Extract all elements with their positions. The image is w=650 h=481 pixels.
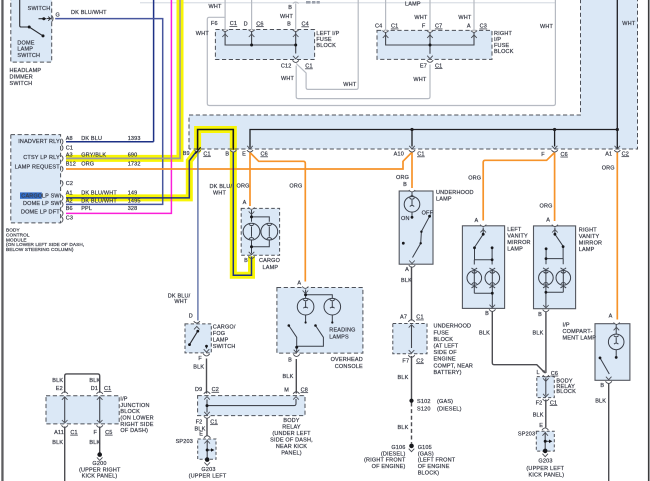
- svg-text:SIDE OF DASH,: SIDE OF DASH,: [270, 437, 313, 443]
- svg-text:C6: C6: [551, 371, 558, 377]
- label G105 (GAS) (LEFT FRONT OF ENGINE BLOCK): [418, 445, 456, 476]
- BCM left pin function labels: [15, 139, 61, 215]
- svg-text:C2: C2: [66, 181, 73, 187]
- svg-text:DOME: DOME: [17, 40, 34, 46]
- svg-text:C1: C1: [210, 419, 217, 425]
- label RIGHT VANITY MIRROR LAMP: [579, 227, 602, 253]
- svg-text:F: F: [422, 24, 426, 30]
- label G203 right (UPPER LEFT KICK PANEL): [526, 459, 564, 479]
- wire black loop inside connector strip B9 to B: [198, 130, 234, 150]
- wire DK BLU/WHT 149 highlight (yellow): [66, 130, 252, 276]
- body relay pin D9/M arcs: [204, 392, 300, 394]
- svg-text:WHT: WHT: [213, 190, 227, 196]
- overhead console box: [277, 288, 363, 354]
- svg-text:WHT: WHT: [413, 77, 427, 83]
- ground G106/G105: [409, 444, 415, 452]
- svg-text:(AT LEFT: (AT LEFT: [434, 344, 459, 350]
- right vanity pin B label and BLK: [533, 312, 544, 337]
- labels OFF ON: [401, 210, 434, 222]
- svg-text:CONSOLE: CONSOLE: [335, 364, 363, 370]
- svg-text:BLK: BLK: [52, 440, 63, 446]
- svg-text:G106: G106: [391, 445, 405, 451]
- svg-text:D: D: [244, 21, 248, 27]
- ground G200: [97, 452, 103, 460]
- svg-text:WHT: WHT: [414, 15, 428, 21]
- svg-text:BLK: BLK: [401, 278, 412, 284]
- svg-text:OF ENGINE): OF ENGINE): [372, 464, 406, 470]
- svg-text:A: A: [546, 218, 550, 224]
- svg-text:CARGO/: CARGO/: [213, 325, 236, 331]
- svg-text:C6: C6: [256, 21, 263, 27]
- svg-text:149: 149: [128, 191, 138, 197]
- underhood lamp pin A exit: [409, 261, 415, 268]
- svg-text:ORG: ORG: [289, 184, 302, 190]
- svg-text:C3: C3: [480, 24, 487, 30]
- svg-text:BLK: BLK: [479, 331, 490, 337]
- label UNDERHOOD LAMP: [436, 190, 474, 203]
- wire WHT from C12 routed up between fuse blocks: [296, 0, 358, 89]
- overhead console pin A entry: [302, 287, 308, 294]
- label CARGO LP SW with selection highlight: [20, 192, 60, 199]
- wire ORG pin F branch to left vanity lamp A: [483, 153, 554, 221]
- svg-text:C1: C1: [435, 63, 442, 69]
- svg-text:LP SW: LP SW: [42, 194, 61, 200]
- wire BLK left vanity B to body relay block L: [492, 312, 546, 374]
- connector strip pin label B: [225, 151, 229, 157]
- underhood fuse block internals: [408, 320, 414, 358]
- connector E/C6 pin: [247, 146, 253, 152]
- svg-text:(UPPER LEFT: (UPPER LEFT: [526, 466, 564, 472]
- svg-text:BLK: BLK: [283, 374, 294, 380]
- svg-text:CARGO: CARGO: [21, 194, 43, 200]
- svg-text:D9: D9: [195, 387, 202, 393]
- svg-text:B: B: [287, 22, 291, 28]
- svg-text:B: B: [403, 182, 407, 188]
- label DOME LAMP SWITCH: [17, 40, 40, 59]
- svg-text:C6: C6: [561, 152, 568, 158]
- svg-text:F: F: [93, 430, 97, 436]
- svg-text:D1: D1: [91, 386, 98, 392]
- splice SP203 left internals: [204, 436, 214, 466]
- label CARGO/FOG LAMP SWITCH: [213, 325, 236, 351]
- right vanity pin B exit: [543, 305, 549, 312]
- cargo lamp pin B exit: [248, 252, 254, 259]
- wire DK BLU/WHT 1495 connector B9 to fog lamp switch D: [197, 152, 199, 321]
- svg-text:DK BLU: DK BLU: [81, 136, 102, 142]
- svg-text:COMPART-: COMPART-: [563, 329, 593, 335]
- svg-text:E7: E7: [420, 63, 427, 69]
- svg-text:(GAS): (GAS): [418, 451, 434, 457]
- svg-text:BLOCK: BLOCK: [556, 389, 576, 395]
- svg-text:DK BLU/WHT: DK BLU/WHT: [71, 10, 107, 16]
- I/P compartment lamp pin A entry: [614, 323, 620, 331]
- I/P junction block internals: [62, 392, 103, 428]
- svg-text:S120: S120: [417, 407, 431, 413]
- body relay block box (right): [537, 377, 555, 398]
- svg-text:(DIESEL): (DIESEL): [381, 451, 406, 457]
- svg-text:B: B: [288, 5, 292, 11]
- connector B9/C1 pin: [195, 147, 201, 153]
- svg-text:ON: ON: [401, 216, 410, 222]
- body relay box (center): [198, 396, 305, 416]
- connector A1/C2 pin: [614, 146, 620, 152]
- I/P harness connector strip (blue dashed region) fill: [189, 0, 638, 149]
- svg-text:C1: C1: [230, 21, 237, 27]
- svg-text:C8: C8: [301, 387, 308, 393]
- cargo lamp internals (two bulbs): [243, 210, 278, 254]
- svg-text:WHT: WHT: [281, 76, 295, 82]
- ORG wire labels: [237, 166, 615, 210]
- svg-text:UNDERHOOD: UNDERHOOD: [436, 190, 474, 196]
- svg-text:L: L: [536, 370, 539, 376]
- cut-off top module bottom edge: [140, 2, 555, 4]
- I/P harness connector strip dashed border: [189, 0, 638, 149]
- console pin B label and BLK: [283, 357, 294, 379]
- svg-text:ORG: ORG: [396, 175, 409, 181]
- svg-text:1495: 1495: [128, 199, 141, 205]
- svg-text:OFF: OFF: [422, 210, 434, 216]
- left vanity pin A entry: [480, 225, 486, 233]
- label G106 (DIESEL) (RIGHT FRONT OF ENGINE): [364, 445, 406, 470]
- svg-text:F7: F7: [402, 358, 409, 364]
- wire WHT from E7 routed left to C12: [296, 65, 430, 99]
- svg-text:DOME LP SW: DOME LP SW: [23, 201, 60, 207]
- connector strip pin labels A1/C2: [605, 151, 629, 157]
- svg-text:WHT: WHT: [622, 21, 636, 27]
- label C12/C1: [281, 64, 313, 70]
- cut text fragment top center: [306, 1, 320, 4]
- wire BLK body relay F2 to splice SP203: [206, 418, 208, 436]
- labels F7/C2 and BLK: [398, 358, 424, 381]
- label READING LAMPS: [329, 328, 355, 341]
- left I/P fuse block box: [215, 30, 314, 60]
- label I/P COMPARTMENT LAMP: [563, 323, 597, 342]
- overhead console reading lamps internals: [289, 290, 341, 353]
- connector strip pin labels F/C6: [541, 152, 568, 158]
- svg-text:BLK: BLK: [52, 378, 63, 384]
- svg-text:1393: 1393: [128, 136, 141, 142]
- svg-text:C1: C1: [417, 152, 424, 158]
- right fuse block pin labels: [375, 24, 487, 30]
- svg-text:F2: F2: [536, 400, 543, 406]
- svg-text:RELAY: RELAY: [282, 424, 301, 430]
- svg-text:E2: E2: [56, 386, 63, 392]
- svg-text:E: E: [199, 432, 203, 438]
- label G203 left: [189, 467, 227, 479]
- wire WHT right fuse C4/C1 riser: [385, 0, 387, 30]
- svg-text:D: D: [189, 314, 193, 320]
- svg-text:BLK: BLK: [533, 331, 544, 337]
- svg-text:(ON LOWER: (ON LOWER: [120, 416, 153, 422]
- labels D9/C2: [195, 387, 219, 393]
- svg-text:HEADLAMP: HEADLAMP: [10, 68, 42, 74]
- body control module box: [11, 135, 61, 223]
- wire GRY/BLK 690 core: [66, 0, 180, 158]
- svg-text:ORG: ORG: [237, 183, 250, 189]
- svg-text:A11: A11: [54, 430, 64, 436]
- left vanity lamp internals: [467, 228, 500, 308]
- svg-text:LEFT: LEFT: [507, 227, 522, 233]
- right I/P fuse block box: [377, 30, 492, 59]
- svg-text:LAMP: LAMP: [579, 247, 595, 253]
- label SWITCH (dimmer top, cut): [28, 6, 51, 12]
- svg-text:B: B: [538, 312, 542, 318]
- svg-text:DIMMER: DIMMER: [10, 75, 33, 81]
- label UNDERHOOD FUSE BLOCK (AT LEFT SIDE OF ENGINE COMPT, NEAR BATTERY): [434, 324, 474, 376]
- overhead console pin B exit: [293, 350, 299, 357]
- svg-text:C4: C4: [375, 24, 382, 30]
- svg-text:DK BLU/: DK BLU/: [210, 184, 233, 190]
- wire BLK overhead console B to body relay M: [295, 359, 297, 394]
- svg-text:S102: S102: [417, 399, 431, 405]
- svg-text:BLOCK: BLOCK: [120, 409, 140, 415]
- wire ORG 1732 from BCM B12 to pin A10: [66, 152, 412, 169]
- underhood fuse block box: [393, 324, 427, 354]
- connector F/C6 pin: [552, 146, 558, 152]
- svg-text:B9: B9: [183, 151, 190, 157]
- svg-text:ORG: ORG: [81, 162, 94, 168]
- label BODY RELAY (UNDER LEFT SIDE OF DASH, NEAR KICK PANEL): [270, 418, 313, 457]
- svg-text:BLK: BLK: [398, 425, 409, 431]
- wire BLK underhood lamp A to underhood fuse block A7: [411, 267, 413, 321]
- body relay (center) internals: [204, 397, 299, 419]
- labels F2/C1 BLK E (left ground chain): [195, 419, 218, 437]
- svg-text:BELOW STEERING COLUMN): BELOW STEERING COLUMN): [6, 247, 74, 252]
- svg-text:SP203: SP203: [518, 432, 535, 438]
- svg-text:LAMP: LAMP: [263, 265, 279, 271]
- svg-text:LAMP: LAMP: [436, 197, 452, 203]
- svg-text:F6: F6: [211, 21, 218, 27]
- wire PPL 328 from BCM B6 to top: [66, 0, 171, 213]
- label RIGHT I/P FUSE BLOCK: [494, 31, 514, 55]
- svg-text:BLK: BLK: [193, 365, 204, 371]
- wire ORG pin A10 to underhood lamp B: [411, 153, 413, 189]
- svg-text:LAMP: LAMP: [213, 338, 229, 344]
- wire BLK junction block F to ground G200: [99, 427, 101, 453]
- wire WHT fuse B/C4 riser: [293, 2, 299, 30]
- fog lamp switch internals: [190, 331, 207, 348]
- svg-text:LAMP REQUEST: LAMP REQUEST: [15, 165, 61, 171]
- labels L/C6: [536, 370, 558, 377]
- I/P compartment lamp pin B label and BLK: [595, 383, 606, 405]
- labels M/C8: [284, 387, 308, 393]
- dome lamp switch contacts and blade: [20, 0, 47, 36]
- svg-text:A7: A7: [400, 315, 407, 321]
- svg-text:C2: C2: [622, 151, 629, 157]
- labels F2/C1 right and BLK E: [533, 400, 558, 429]
- svg-text:RIGHT: RIGHT: [579, 227, 597, 233]
- svg-text:WHT: WHT: [196, 31, 210, 37]
- svg-text:C3: C3: [66, 216, 73, 222]
- svg-text:B: B: [244, 258, 248, 264]
- wire BLK junction block loop E2-D1: [65, 374, 100, 393]
- BCM pin arcs: [62, 139, 64, 223]
- svg-text:BLK: BLK: [533, 412, 544, 418]
- svg-text:C5: C5: [105, 430, 112, 436]
- svg-text:B12: B12: [66, 162, 76, 168]
- underhood lamp pin B entry: [409, 190, 415, 198]
- svg-text:1732: 1732: [128, 162, 141, 168]
- svg-text:OF ENGINE: OF ENGINE: [418, 464, 450, 470]
- left page edge bar: [1, 0, 3, 481]
- right page edge line: [648, 0, 650, 481]
- underhood lamp pin A label and BLK: [401, 267, 412, 284]
- svg-text:C2: C2: [212, 387, 219, 393]
- junction block BLK labels top: [52, 378, 100, 384]
- BCM right pin labels: [66, 136, 76, 222]
- svg-text:CTSY LP RLY: CTSY LP RLY: [23, 155, 60, 161]
- svg-text:SP203: SP203: [176, 439, 193, 445]
- svg-text:C4: C4: [302, 22, 309, 28]
- WHT labels left routing wire: [196, 31, 210, 37]
- svg-text:KICK PANEL): KICK PANEL): [528, 472, 564, 478]
- splice SP203 box (left): [198, 439, 216, 459]
- underhood lamp pin B label: [403, 182, 407, 188]
- label HEADLAMP DIMMER SWITCH: [10, 68, 42, 87]
- svg-text:MIRROR: MIRROR: [507, 240, 530, 246]
- connector A10/C1 pin: [409, 146, 415, 152]
- svg-text:WHT: WHT: [540, 24, 554, 30]
- svg-text:E: E: [242, 152, 246, 158]
- svg-text:BATTERY): BATTERY): [434, 370, 462, 376]
- svg-text:A: A: [467, 24, 471, 30]
- fog lamp switch pin D entry: [194, 321, 200, 329]
- svg-text:F: F: [198, 356, 202, 362]
- splice SP203 box (right): [536, 431, 554, 451]
- svg-text:BLOCK): BLOCK): [418, 470, 440, 476]
- svg-text:C1: C1: [391, 24, 398, 30]
- fog switch pin F label and BLK: [193, 356, 204, 371]
- svg-text:KICK PANEL): KICK PANEL): [82, 474, 118, 480]
- label LEFT VANITY MIRROR LAMP: [507, 227, 530, 253]
- svg-text:FUSE: FUSE: [434, 330, 450, 336]
- svg-text:SWITCH: SWITCH: [28, 6, 51, 12]
- cargo lamp pin A entry: [248, 207, 254, 214]
- svg-text:I/P: I/P: [563, 323, 570, 329]
- svg-text:C1: C1: [66, 146, 73, 152]
- left fuse block pin labels: [211, 21, 309, 27]
- svg-text:G200: G200: [92, 461, 106, 467]
- svg-text:ORG: ORG: [540, 203, 553, 209]
- svg-text:JUNCTION: JUNCTION: [120, 403, 149, 409]
- label BODY CONTROL MODULE: [6, 228, 84, 253]
- svg-text:LAMP: LAMP: [405, 1, 421, 7]
- wire BLK body relay block F2 to splice SP203 right: [545, 400, 547, 428]
- svg-text:A8: A8: [66, 136, 73, 142]
- svg-text:C1: C1: [70, 430, 77, 436]
- I/P compartment lamp box: [595, 324, 630, 381]
- svg-text:A: A: [243, 200, 247, 206]
- svg-text:MIRROR: MIRROR: [579, 240, 602, 246]
- wire GRY/BLK 690 highlight (yellow): [66, 0, 180, 158]
- svg-text:B: B: [485, 311, 489, 317]
- label DK BLU/WHT (149 wire upper): [210, 184, 233, 196]
- svg-text:CARGO: CARGO: [259, 258, 281, 264]
- right vanity pin A entry: [552, 225, 558, 233]
- svg-text:C1: C1: [203, 151, 210, 157]
- wire ORG pin F to right vanity lamp A: [554, 153, 556, 222]
- svg-text:DOME LP DFT: DOME LP DFT: [21, 210, 60, 216]
- svg-text:A: A: [474, 218, 478, 224]
- fog switch pin D label: [189, 314, 193, 320]
- wire ORG pin E branch to overhead console A: [250, 153, 305, 282]
- junction block BLK labels bottom: [52, 440, 100, 446]
- I/P compartment lamp pin B exit: [606, 377, 612, 384]
- console pin A label: [297, 281, 301, 287]
- connector strip pin labels E/C6: [242, 152, 268, 158]
- I/P junction block box: [46, 396, 119, 424]
- wire WHT from fuse F6 routed around fuse blocks: [207, 0, 555, 106]
- right fuse block internals: [383, 31, 478, 63]
- svg-text:E: E: [539, 423, 543, 429]
- labels E2 D1 C1: [56, 386, 112, 392]
- BCM wire color labels: [81, 136, 117, 212]
- svg-text:LAMP: LAMP: [17, 47, 33, 53]
- WHT labels above right fuse block: [414, 15, 472, 21]
- svg-text:A: A: [297, 281, 301, 287]
- label DK BLU/WHT (switch wire): [71, 10, 107, 16]
- right vanity mirror lamp box: [534, 226, 576, 309]
- label pin G: [55, 13, 59, 19]
- svg-text:BLK: BLK: [595, 399, 606, 405]
- left vanity pin B label and BLK: [479, 311, 490, 337]
- label I/P JUNCTION BLOCK (ON LOWER RIGHT SIDE OF DASH): [120, 397, 153, 435]
- splice SP203 right internals: [542, 428, 552, 457]
- svg-text:A3: A3: [66, 152, 73, 158]
- wire ORG pin E to cargo lamp A: [249, 153, 251, 207]
- svg-text:B: B: [600, 383, 604, 389]
- svg-text:A1: A1: [66, 191, 73, 197]
- svg-text:NEAR KICK: NEAR KICK: [276, 444, 307, 450]
- fog lamp switch pin F exit: [203, 349, 209, 356]
- svg-text:SWITCH: SWITCH: [17, 53, 40, 59]
- svg-text:C6: C6: [261, 152, 268, 158]
- svg-text:SIDE OF: SIDE OF: [434, 350, 458, 356]
- cargo lamp box: [241, 208, 279, 255]
- svg-text:G105: G105: [418, 445, 432, 451]
- svg-text:G: G: [55, 13, 59, 19]
- svg-text:C2: C2: [416, 358, 423, 364]
- svg-text:GRY/BLK: GRY/BLK: [81, 152, 106, 158]
- svg-text:(UPPER LEFT: (UPPER LEFT: [189, 474, 227, 480]
- wire DK BLU 1393 from BCM A8 to top: [66, 0, 154, 142]
- svg-text:G203: G203: [201, 467, 215, 473]
- wire WHT fuse D/C6 riser: [251, 0, 253, 30]
- left vanity pin A label: [474, 218, 478, 224]
- label BODY RELAY BLOCK: [556, 378, 576, 395]
- svg-text:BLK: BLK: [89, 440, 100, 446]
- svg-text:F2: F2: [196, 419, 203, 425]
- svg-text:M: M: [284, 387, 289, 393]
- wire DK BLU/WHT 149 core BCM A1 to connector B9: [66, 150, 198, 198]
- label G200 (UPPER RIGHT KICK PANEL): [79, 461, 121, 479]
- svg-text:C1: C1: [416, 315, 423, 321]
- svg-text:B: B: [225, 151, 229, 157]
- underhood lamp box: [399, 191, 433, 264]
- cut label LAMP (top): [405, 1, 421, 7]
- pin G arrow of dome lamp switch: [47, 15, 53, 21]
- svg-text:BLOCK: BLOCK: [316, 43, 336, 49]
- I/P compartment lamp internals: [600, 325, 624, 375]
- right vanity lamp internals: [539, 228, 571, 308]
- cargo lamp pin labels A and B: [243, 200, 248, 264]
- body relay block (right) pin L and internals: [543, 375, 549, 401]
- svg-text:RIGHT SIDE: RIGHT SIDE: [120, 422, 153, 428]
- left vanity pin B exit: [489, 305, 495, 312]
- wire BLK I/P compartment lamp B down off page: [608, 384, 610, 481]
- wire BLK underhood fuse F7 to splice S102/S120: [411, 356, 413, 399]
- svg-text:C1: C1: [550, 400, 557, 406]
